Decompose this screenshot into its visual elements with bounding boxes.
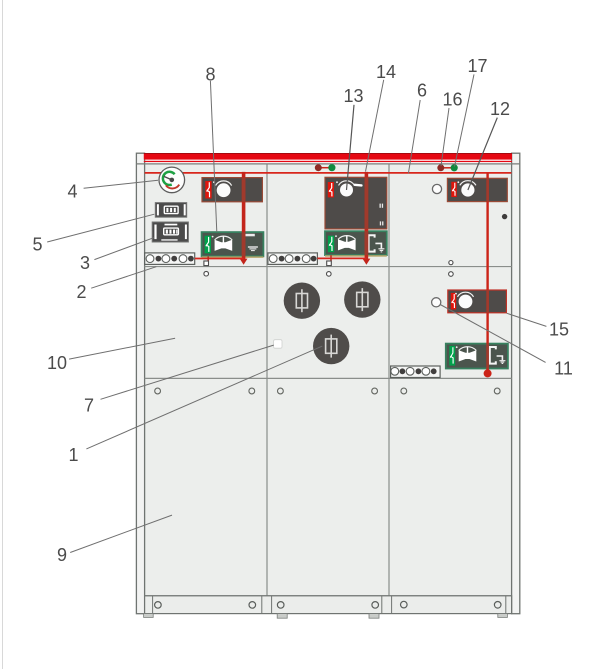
- leader line 6: [408, 100, 420, 173]
- indicator dot green 17 (right section): [451, 164, 458, 171]
- svg-text:2: 2: [76, 282, 86, 302]
- circuit breaker operating panel (item 15): [448, 290, 507, 313]
- bottom rail: [145, 596, 512, 614]
- leader line 7: [101, 345, 274, 399]
- section divider left/middle: [266, 164, 268, 595]
- red cable link left section: [195, 258, 244, 260]
- leader line 12: [468, 118, 497, 190]
- svg-text:5: 5: [32, 234, 42, 254]
- red riser left section: [240, 172, 248, 265]
- leader target circle (item 11): [432, 298, 441, 307]
- bottom rail separator lines: [153, 596, 506, 614]
- door lock dot right section: [502, 214, 507, 219]
- leader line 2: [91, 267, 156, 289]
- cable indicator strip left section (item 2): [145, 253, 195, 265]
- cabinet left side rail: [136, 153, 144, 614]
- leader line 8: [210, 81, 216, 232]
- leader line 10: [69, 338, 175, 359]
- vent hole left: [204, 271, 209, 276]
- left load-break switch panel (green): [202, 232, 264, 258]
- red riser right section with end dot: [484, 173, 492, 377]
- leader line 11: [440, 305, 545, 363]
- leader line 1: [86, 346, 322, 449]
- cable indicator strip middle section: [268, 253, 318, 265]
- svg-text:13: 13: [343, 86, 363, 106]
- leader line 3: [94, 238, 153, 260]
- svg-text:1: 1: [68, 445, 78, 465]
- svg-text:15: 15: [549, 319, 569, 339]
- page left border line: [2, 0, 4, 669]
- indicator dot maroon (middle section): [315, 164, 322, 171]
- red bus line: [145, 172, 512, 174]
- indicator dot pair right section: red connector: [441, 167, 454, 169]
- thin red trim line under bar: [144, 161, 512, 162]
- section divider middle/right: [388, 164, 390, 595]
- svg-text:11: 11: [554, 358, 573, 378]
- right earthing switch panel (green): [446, 344, 508, 369]
- top busbar cover (thick red bar): [144, 154, 512, 160]
- leader line 9: [70, 515, 172, 552]
- middle load-break switch panel (green): [325, 231, 387, 257]
- leader line 13: [347, 105, 355, 190]
- right top switch operating panel (dark): [447, 178, 507, 201]
- fault indicator display (item 3): [152, 222, 188, 242]
- svg-text:17: 17: [467, 56, 487, 76]
- indicator dot green (middle section): [328, 164, 335, 171]
- callout labels: [32, 56, 572, 565]
- leader line 16: [441, 108, 449, 166]
- small white plate (item 7): [274, 340, 282, 349]
- left switch operating panel (dark): [202, 178, 262, 202]
- leader line 14: [366, 80, 384, 172]
- indicator dot pair middle section: red connector: [318, 167, 332, 169]
- terminal square middle: [327, 261, 332, 266]
- cabinet feet: [144, 614, 508, 619]
- terminal square left: [204, 261, 209, 266]
- horizontal frame line above doors: [145, 377, 512, 379]
- middle switch operating panel (dark, tall): [325, 177, 387, 229]
- door screws upper row: [155, 388, 500, 394]
- svg-text:9: 9: [57, 545, 67, 565]
- leader line 5: [47, 214, 154, 242]
- svg-text:4: 4: [67, 181, 77, 201]
- red riser middle section: [363, 172, 371, 265]
- svg-text:8: 8: [205, 64, 215, 84]
- red stub under left green panel: [207, 256, 209, 261]
- fuse compartment circle top-right: [344, 281, 380, 317]
- svg-text:10: 10: [47, 353, 67, 373]
- leader line 15: [507, 313, 547, 326]
- svg-text:12: 12: [490, 99, 510, 119]
- svg-text:14: 14: [376, 62, 396, 82]
- horizontal frame line under module row: [145, 266, 512, 268]
- red stub under middle green panel: [330, 255, 332, 261]
- vent hole middle: [327, 272, 332, 277]
- svg-text:16: 16: [442, 89, 462, 109]
- vent hole right upper: [449, 261, 453, 265]
- red cable link middle section: [317, 257, 366, 259]
- svg-text:7: 7: [84, 395, 94, 415]
- fuse compartment circle top-left: [284, 283, 320, 319]
- cabinet right side rail: [512, 153, 520, 614]
- VPIS window right section: [432, 184, 441, 193]
- leader line 17: [455, 74, 475, 166]
- bottom rail screws: [155, 601, 501, 608]
- cabinet top frame line: [136, 163, 520, 165]
- gas density display (item 5): [155, 203, 186, 218]
- fuse compartment circle bottom (item 1): [313, 328, 349, 364]
- cable indicator strip right section: [391, 366, 441, 378]
- leader line 4: [84, 180, 158, 188]
- svg-text:6: 6: [417, 80, 427, 100]
- door bottom line: [145, 595, 512, 597]
- busbar cover top edge: [144, 153, 512, 155]
- svg-text:3: 3: [80, 253, 90, 273]
- cabinet body background: [145, 164, 512, 596]
- indicator dot maroon 16 (right section): [437, 164, 444, 171]
- vent hole right lower: [449, 272, 454, 277]
- manometer dial (item 4): [159, 167, 185, 193]
